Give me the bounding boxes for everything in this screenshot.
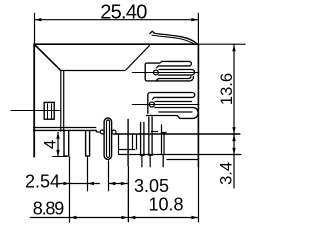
svg-text:4: 4 <box>40 140 59 149</box>
svg-text:13.6: 13.6 <box>218 73 236 105</box>
svg-text:3.4: 3.4 <box>217 162 235 185</box>
svg-text:2.54: 2.54 <box>25 172 60 192</box>
svg-text:3.05: 3.05 <box>134 176 169 196</box>
svg-text:8.89: 8.89 <box>33 199 64 219</box>
svg-text:10.8: 10.8 <box>149 195 184 215</box>
svg-text:25.40: 25.40 <box>100 2 147 24</box>
